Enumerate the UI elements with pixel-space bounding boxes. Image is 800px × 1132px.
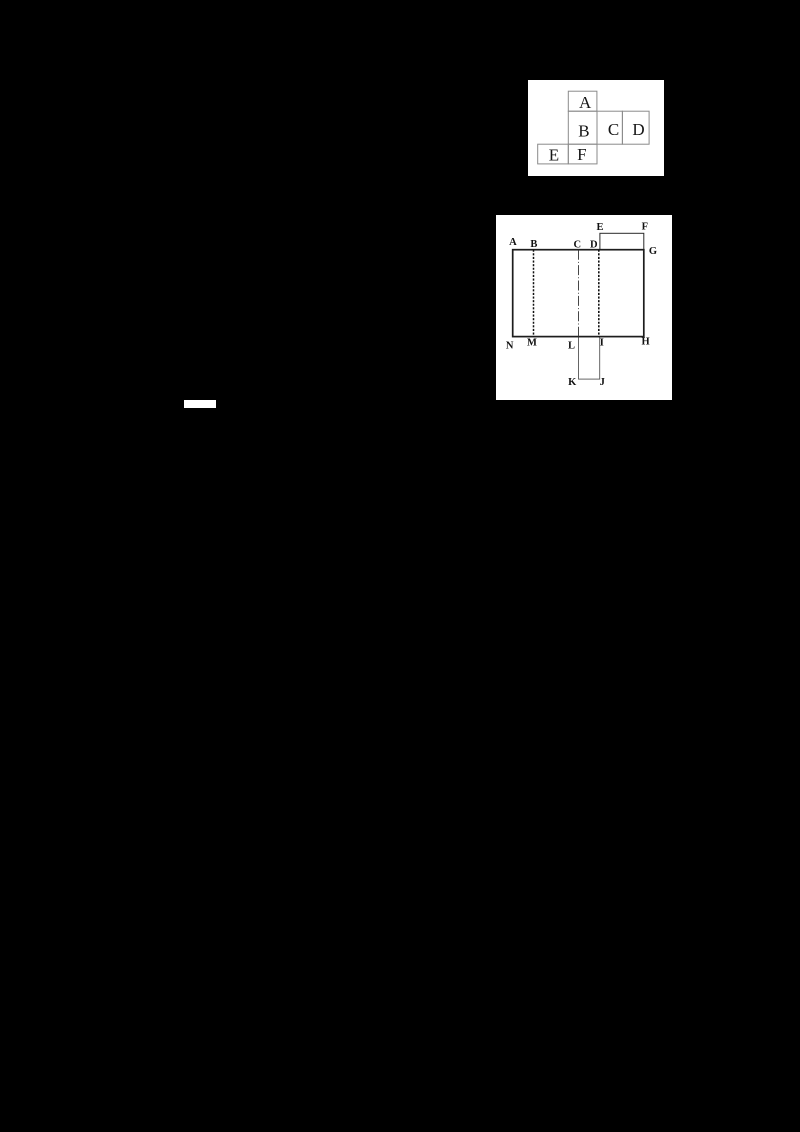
svg-text:N: N bbox=[506, 340, 514, 351]
svg-text:B: B bbox=[578, 121, 589, 140]
svg-text:D: D bbox=[590, 239, 598, 250]
svg-text:F: F bbox=[577, 145, 586, 164]
flap EFGD bbox=[600, 233, 644, 249]
figure 2: rectangle net A-N bbox=[496, 215, 672, 400]
svg-text:E: E bbox=[549, 145, 559, 164]
cell B bbox=[568, 111, 597, 144]
dotted fold line DI bbox=[598, 250, 600, 337]
svg-text:B: B bbox=[530, 239, 537, 250]
dotted fold line BM bbox=[533, 250, 535, 337]
svg-text:L: L bbox=[568, 340, 575, 351]
svg-text:M: M bbox=[527, 337, 537, 348]
svg-text:C: C bbox=[608, 120, 619, 139]
cell D bbox=[622, 111, 649, 144]
svg-text:J: J bbox=[600, 377, 605, 388]
svg-text:K: K bbox=[568, 377, 577, 388]
cell F bbox=[568, 144, 597, 164]
figure 1: cube net A-F bbox=[528, 80, 664, 176]
svg-text:G: G bbox=[649, 246, 657, 257]
svg-text:F: F bbox=[642, 222, 648, 233]
svg-text:C: C bbox=[574, 240, 582, 251]
dash-dot fold line CL bbox=[578, 250, 580, 337]
svg-text:I: I bbox=[600, 338, 604, 349]
main rectangle ANHG bbox=[513, 250, 644, 337]
svg-text:A: A bbox=[579, 93, 592, 112]
svg-text:E: E bbox=[596, 222, 603, 233]
svg-text:H: H bbox=[642, 336, 650, 347]
answer blank bar bbox=[184, 400, 216, 408]
tab LIJK bbox=[579, 337, 600, 380]
cell C bbox=[597, 111, 622, 144]
cell A bbox=[568, 91, 597, 111]
cell E bbox=[538, 144, 569, 164]
svg-text:D: D bbox=[632, 120, 644, 139]
svg-text:A: A bbox=[509, 237, 517, 248]
